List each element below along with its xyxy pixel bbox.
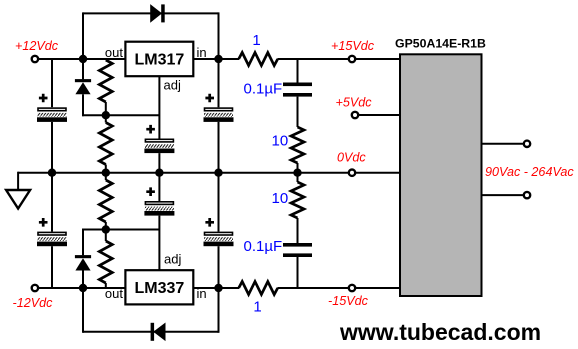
resistor divider (adj node to -12V rail, LM337): [99, 241, 112, 283]
svg-text:adj: adj: [164, 78, 181, 93]
wire in node cap top lead: [218, 59, 220, 107]
terminal 0Vdc: [349, 170, 355, 176]
wire +15V branch down to 0.1uF cap: [297, 59, 299, 83]
capacitor input filter +12V rail: [37, 94, 67, 122]
wire 0.1uF cap to 10 ohm resistor: [297, 97, 299, 127]
wire adj node down to diode cathode (LM337): [82, 229, 84, 256]
junction ground / in caps: [214, 169, 222, 177]
wire vertical from top rail down to out node: [82, 12, 84, 59]
wire module AC line lower: [482, 194, 528, 196]
terminal AC upper: [524, 141, 530, 147]
svg-text:out: out: [105, 286, 123, 301]
ground rail 0Vdc: [18, 172, 400, 174]
resistor divider lower (adj node to ground): [99, 123, 112, 165]
terminal -12Vdc: [32, 285, 38, 291]
svg-text:-12Vdc: -12Vdc: [13, 296, 54, 310]
wire ground to 10 ohm resistor (-15V snubber): [297, 173, 299, 182]
wire bottom rail from out node to in node: [83, 331, 219, 333]
wire adj bypass cap to ground rail: [158, 153, 160, 173]
wire resistor to adj node (LM337): [105, 222, 107, 230]
junction in node bottom: [214, 284, 222, 292]
wire LM317 adj pin down to bypass cap: [158, 76, 160, 138]
svg-text:10: 10: [272, 133, 289, 150]
wire 0.1uF cap to -15V rail: [297, 257, 299, 288]
capacitor LM337 adj bypass: [144, 187, 174, 215]
diode protection across LM337 (cathode at out): [151, 323, 165, 341]
junction out node top: [79, 55, 87, 63]
terminal +5Vdc: [352, 112, 358, 118]
wire resistor to +15Vdc terminal and module: [277, 58, 400, 60]
diode protection across LM317 (anode at out, cathode at in): [151, 4, 165, 22]
svg-text:www.tubecad.com: www.tubecad.com: [339, 319, 541, 345]
wire diode anode down to adj node line: [82, 94, 84, 116]
wire 10 ohm to 0.1uF cap: [297, 218, 299, 243]
svg-text:+15Vdc: +15Vdc: [331, 39, 375, 53]
svg-text:-15Vdc: -15Vdc: [328, 294, 369, 308]
wire diode anode to -12V rail: [82, 271, 84, 289]
wire adj node line LM337: [82, 229, 159, 231]
wire -12Vdc rail to LM337 out pin: [35, 287, 126, 289]
wire adj node to lower divider resistor (LM337): [105, 230, 107, 242]
junction ground / snubber: [293, 169, 301, 177]
svg-text:in: in: [197, 286, 207, 301]
svg-text:+12Vdc: +12Vdc: [15, 39, 59, 53]
junction adj node LM337: [102, 225, 110, 233]
terminal +12Vdc: [32, 56, 38, 62]
terminal AC lower: [524, 192, 530, 198]
svg-text:0.1µF: 0.1µF: [244, 81, 283, 98]
capacitor input filter -12V rail: [37, 218, 67, 246]
junction in node top: [214, 55, 222, 63]
wire ground to -12V in cap: [218, 173, 220, 232]
junction out node bottom: [79, 284, 87, 292]
svg-text:10: 10: [272, 190, 289, 207]
capacitor LM317 adj bypass: [144, 125, 174, 153]
wire resistor to -12V rail: [105, 283, 107, 288]
wire -12V input cap upper lead from ground: [51, 173, 53, 232]
wire LM337 adj bypass cap to adj pin: [158, 216, 160, 271]
wire +12Vdc rail to LM317 out pin: [35, 58, 126, 60]
regulator LM317: [125, 42, 193, 76]
wire +5Vdc terminal to module: [355, 114, 400, 116]
power module GP50A14E-R1B: [395, 37, 486, 297]
resistor 1 ohm (-15V series): [239, 282, 278, 295]
resistor divider (ground to adj node, LM337): [99, 180, 112, 222]
svg-text:GP50A14E-R1B: GP50A14E-R1B: [395, 37, 486, 51]
resistor 10 ohm (+15V snubber): [291, 127, 304, 163]
wire -12V in cap to rail: [218, 246, 220, 288]
capacitor input filter at LM337 in: [204, 218, 234, 246]
svg-text:LM337: LM337: [135, 280, 185, 297]
wire -12V input cap lower lead: [51, 246, 53, 288]
wire adj node line (diode, divider, adj pin): [82, 114, 159, 116]
svg-text:1: 1: [252, 32, 260, 49]
wire LM337 in pin to series resistor: [193, 287, 239, 289]
junction ground / left cap: [48, 169, 56, 177]
regulator LM337: [125, 270, 193, 304]
wire divider lower resistor to ground rail: [105, 165, 107, 173]
junction adj node LM317: [102, 111, 110, 119]
wire divider lower resistor (LM337) top lead: [105, 173, 107, 180]
capacitor input filter at LM317 in: [204, 94, 234, 122]
wire ground to LM337 adj bypass cap: [158, 173, 160, 201]
wire ground drop: [17, 172, 19, 190]
terminal -15Vdc: [349, 285, 355, 291]
svg-text:LM317: LM317: [135, 52, 185, 69]
svg-text:1: 1: [253, 299, 261, 316]
wire vertical from top rail down to in node: [218, 12, 220, 59]
wire LM317 in pin to series resistor: [193, 58, 239, 60]
capacitor 0.1uF (-15V): [283, 243, 312, 257]
resistor 10 ohm (-15V snubber): [291, 182, 304, 218]
svg-text:adj: adj: [164, 252, 181, 267]
wire bottom rail right vertical: [218, 288, 220, 333]
wire divider lower resistor top lead: [105, 115, 107, 122]
svg-text:0.1µF: 0.1µF: [244, 238, 283, 255]
wire bottom rail left vertical: [82, 288, 84, 333]
svg-text:in: in: [197, 45, 207, 60]
wire out node down to protection diode: [82, 59, 84, 79]
wire 10 ohm resistor to ground rail: [297, 163, 299, 173]
wire top rail from out node to in node: [83, 12, 219, 14]
wire +12V input cap bottom lead: [51, 122, 53, 173]
wire +12V input cap top lead: [51, 59, 53, 107]
resistor 1 ohm (+15V series): [239, 53, 278, 66]
wire in cap bottom lead to ground: [218, 122, 220, 173]
svg-text:out: out: [105, 45, 123, 60]
wire divider upper resistor to adj node: [105, 102, 107, 115]
ground symbol: [6, 190, 30, 209]
terminal +15Vdc: [349, 56, 355, 62]
svg-text:90Vac - 264Vac: 90Vac - 264Vac: [485, 165, 574, 179]
svg-text:+5Vdc: +5Vdc: [336, 96, 373, 110]
wire module AC line upper: [482, 143, 528, 145]
junction ground / divider: [102, 169, 110, 177]
junction ground / adj caps: [155, 169, 163, 177]
diode adj-to-out protection LM337: [75, 255, 91, 270]
resistor divider upper (out to adj node): [99, 60, 112, 102]
svg-text:0Vdc: 0Vdc: [337, 151, 366, 165]
wire resistor to -15Vdc terminal and module: [277, 287, 400, 289]
capacitor 0.1uF (+15V to junction): [283, 83, 312, 97]
diode adj-to-out protection (cathode at out rail): [75, 79, 91, 94]
